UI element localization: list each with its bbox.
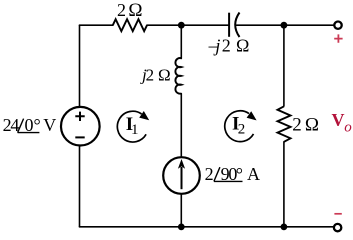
svg-text:2: 2 — [146, 65, 155, 84]
svg-text:V: V — [43, 115, 56, 135]
svg-text:Ω: Ω — [305, 115, 319, 136]
svg-text:2: 2 — [292, 115, 302, 136]
svg-text:Ω: Ω — [236, 36, 249, 56]
svg-text:A: A — [247, 164, 260, 184]
svg-text:2: 2 — [117, 0, 126, 20]
svg-text:2: 2 — [222, 36, 231, 56]
svg-text:V: V — [332, 110, 345, 130]
svg-text:Ω: Ω — [128, 0, 142, 21]
svg-text:24: 24 — [3, 115, 20, 135]
svg-text:2: 2 — [205, 164, 214, 184]
svg-text:o: o — [344, 119, 352, 135]
svg-text:1: 1 — [131, 122, 139, 138]
svg-text:Ω: Ω — [158, 65, 171, 84]
svg-text:2: 2 — [238, 121, 246, 137]
svg-text:j: j — [213, 36, 220, 56]
